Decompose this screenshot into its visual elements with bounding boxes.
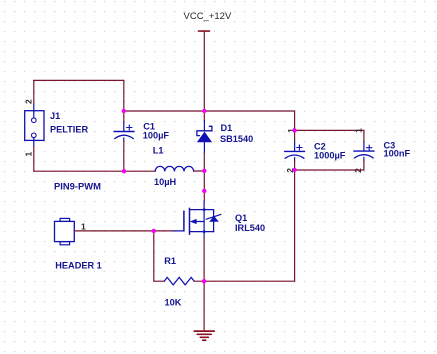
svg-text:1: 1 xyxy=(354,128,364,133)
transistor Q1 gate bar xyxy=(183,211,185,231)
transistor Q1 drain stub xyxy=(190,209,214,211)
junction node at C2 bottom xyxy=(292,168,296,172)
connector HEADER1 body xyxy=(55,221,75,241)
transistor Q1 substrate arrow xyxy=(196,221,204,223)
wire C2C3 top rail xyxy=(295,129,364,131)
diode D1 bottom pin xyxy=(203,142,205,153)
svg-text:J1: J1 xyxy=(50,111,60,121)
connector HEADER1 top tab xyxy=(60,218,70,221)
junction node at C1 top xyxy=(122,109,126,113)
svg-text:IRL540: IRL540 xyxy=(235,223,265,233)
capacitor C2 top plate xyxy=(285,150,305,152)
transistor Q1 drain pin xyxy=(203,201,205,210)
connector J1 pin 2 (blue pin) xyxy=(33,104,35,118)
wire gate node drop to R1 xyxy=(153,231,155,281)
wire L1 right lead xyxy=(194,170,205,172)
transistor Q1 internal vertical xyxy=(203,210,205,232)
junction node at C1 bottom rail xyxy=(122,169,126,173)
wire C1 top lead xyxy=(123,111,125,122)
connector J1 body xyxy=(25,111,44,141)
connector HEADER1 bottom tab xyxy=(60,242,70,245)
svg-text:PELTIER: PELTIER xyxy=(50,124,88,134)
wire C1 bottom lead xyxy=(123,138,125,141)
connector J1 pin-2 circle xyxy=(32,118,37,123)
diode D1 triangle xyxy=(197,132,212,143)
wire J1 pin2 drop xyxy=(33,80,35,104)
wire VCC stem xyxy=(203,31,205,111)
power port VCC bar xyxy=(199,30,210,32)
junction node at VCC/D1 xyxy=(202,109,206,113)
transistor Q1 source junction dot xyxy=(203,230,206,233)
transistor Q1 body-diode branch xyxy=(213,210,215,232)
wire R1 left lead xyxy=(154,280,164,282)
wire mid rail xyxy=(124,110,295,112)
wire corner down to mid rail xyxy=(123,80,125,111)
wire VCC junction to D1 xyxy=(203,111,205,121)
wire J1 pin1 drop xyxy=(33,146,35,171)
junction node at L1/D1 xyxy=(202,169,206,173)
transistor Q1 gate pin xyxy=(173,230,184,232)
capacitor C3 top plate xyxy=(354,150,374,152)
svg-text:100µF: 100µF xyxy=(143,131,170,141)
transistor Q1 channel bar xyxy=(189,208,191,234)
connector J1 pin-1 circle xyxy=(32,133,37,138)
capacitor C2 curved plate xyxy=(285,155,304,158)
capacitor C1 top plate xyxy=(114,131,134,133)
ground symbol xyxy=(194,331,214,340)
svg-text:1: 1 xyxy=(23,152,33,157)
diode D1 cathode bar with schottky hooks xyxy=(197,126,212,135)
wire C2C3 bottom rail xyxy=(295,169,364,171)
transistor Q1 source pin xyxy=(203,232,205,238)
wire right branch drop xyxy=(294,170,296,281)
wire C3 top lead xyxy=(363,130,365,142)
svg-text:PIN9-PWM: PIN9-PWM xyxy=(54,181,101,192)
svg-text:10µH: 10µH xyxy=(154,177,177,187)
wire D1 anode to drain node xyxy=(203,153,205,202)
capacitor C2 plus sign xyxy=(297,145,302,150)
svg-text:10K: 10K xyxy=(165,298,182,308)
svg-text:HEADER 1: HEADER 1 xyxy=(55,261,101,271)
wire C2 bottom lead xyxy=(294,158,296,161)
svg-text:L1: L1 xyxy=(153,146,164,156)
wire C3 bottom lead xyxy=(363,157,365,161)
wire bottom-left rail xyxy=(34,170,155,172)
inductor L1 coil xyxy=(155,166,193,171)
junction node at gate/R1 xyxy=(152,229,156,233)
svg-text:2: 2 xyxy=(23,99,33,104)
capacitor C3 plus sign xyxy=(367,145,372,150)
resistor R1 zigzag xyxy=(164,277,194,285)
transistor Q1 body-diode zener bar xyxy=(206,214,221,219)
transistor Q1 source stub xyxy=(190,231,214,233)
junction node mid segment xyxy=(202,189,206,193)
wire C2 top lead xyxy=(294,130,296,142)
connector J1 pin 1 (blue pin) xyxy=(33,138,35,147)
wire Q1 source down to ground xyxy=(203,238,205,332)
junction node at C2 top xyxy=(292,128,296,132)
wire R1 right lead xyxy=(194,280,204,282)
capacitor C1 plus sign xyxy=(127,125,132,130)
svg-text:100nF: 100nF xyxy=(384,149,411,159)
svg-text:R1: R1 xyxy=(164,256,176,266)
wire bottom rail to right branch xyxy=(204,280,295,282)
wire HEADER1 to gate xyxy=(74,230,172,232)
svg-text:D1: D1 xyxy=(221,123,233,133)
svg-text:1000µF: 1000µF xyxy=(314,150,346,160)
wire top-left rail xyxy=(34,79,124,81)
capacitor C3 curved plate xyxy=(354,155,373,158)
capacitor C1 curved plate xyxy=(115,135,134,138)
svg-text:1: 1 xyxy=(81,221,86,231)
transistor Q1 body-diode triangle xyxy=(209,216,219,222)
junction node at R1 right / bottom rail xyxy=(202,279,206,283)
svg-text:VCC_+12V: VCC_+12V xyxy=(184,11,232,22)
transistor Q1 drain junction dot xyxy=(203,208,206,211)
diode D1 top pin xyxy=(203,121,205,131)
svg-text:Q1: Q1 xyxy=(235,213,247,223)
wire right branch top xyxy=(294,111,296,130)
svg-text:SB1540: SB1540 xyxy=(220,134,253,144)
